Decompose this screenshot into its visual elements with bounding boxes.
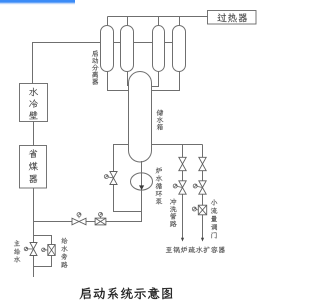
recirculation gate valve xyxy=(95,218,106,225)
steam header pipe to superheater xyxy=(108,16,208,18)
actuator of small flow regulating valve xyxy=(194,209,198,210)
small flow line middle valve xyxy=(199,181,206,194)
separator steam outlet riser 2 xyxy=(127,17,129,28)
pump suction and discharge pipe xyxy=(34,161,142,222)
caption 启动系统示意图 xyxy=(80,287,173,299)
actuator of small flow middle valve xyxy=(195,186,202,188)
main feedwater control valve xyxy=(30,243,37,256)
separator 3 drain pipe xyxy=(151,72,159,87)
tank left outlet pipe xyxy=(114,145,142,212)
separator inlet manifold segment 2-3 xyxy=(134,42,153,44)
actuator of feedwater bypass valve xyxy=(43,249,47,251)
separator 1 drain pipe xyxy=(108,72,130,91)
label 水冷壁 waterwall xyxy=(29,88,38,120)
label 给水旁路 feedwater bypass xyxy=(61,238,68,268)
blue title bar fragment xyxy=(0,0,75,4)
flushing line arrow xyxy=(181,238,184,242)
label 过热器 superheater xyxy=(217,13,247,22)
separator steam outlet riser 1 xyxy=(107,17,109,28)
small flow regulating gate valve xyxy=(198,205,206,215)
tank discharge header pipe xyxy=(152,144,203,146)
separator steam outlet riser 3 xyxy=(158,17,160,28)
startup separator vessel 2 xyxy=(121,26,134,72)
startup separator vessel 4 xyxy=(173,26,186,72)
small flow line arrow xyxy=(201,238,204,242)
separator inlet manifold segment 3-4 xyxy=(165,42,173,44)
storage tank 储水箱 xyxy=(129,72,152,163)
label 启动分离器 startup separator xyxy=(92,50,99,84)
boiler circulating pump 炉水循环泵 xyxy=(131,173,153,190)
actuator of flushing line lower valve xyxy=(175,186,182,188)
actuator of recirculation gate valve xyxy=(100,214,102,218)
label 小流量调门 small flow valve xyxy=(211,199,217,238)
actuator of tank left outlet valve xyxy=(106,177,113,178)
flushing line pipe A xyxy=(182,145,184,239)
valve on tank left outlet xyxy=(110,172,117,185)
label 储水箱 storage tank xyxy=(157,110,164,131)
pump flow direction marker xyxy=(139,185,144,190)
riser pipe from waterwall to separator manifold xyxy=(33,43,101,84)
actuator of recirculation isolation valve xyxy=(78,215,80,219)
feedwater bypass pipe loop xyxy=(34,236,52,267)
startup separator vessel 1 xyxy=(101,26,114,72)
actuator of main feedwater valve xyxy=(26,248,34,250)
label 至锅炉疏水扩容器 to boiler drain flash tank xyxy=(166,246,225,253)
economizer box 省煤器 xyxy=(20,146,47,189)
flushing line lower valve xyxy=(179,181,186,194)
small flow line upper valve xyxy=(199,157,206,170)
separator inlet manifold segment 1-2 xyxy=(114,42,121,44)
feedwater bypass gate valve xyxy=(48,245,55,256)
startup separator vessel 3 xyxy=(153,26,165,72)
waterwall box 水冷壁 xyxy=(20,84,48,122)
feedwater main pipe xyxy=(33,188,35,277)
flushing line upper valve xyxy=(179,157,186,170)
label 炉水循环泵 circulating pump xyxy=(156,167,163,204)
label 冲洗管路 flushing line xyxy=(170,198,177,227)
separator 2 drain pipe xyxy=(128,72,130,86)
small flow line pipe B xyxy=(202,145,204,239)
label 主给水 main feedwater xyxy=(14,240,20,262)
recirculation isolation valve xyxy=(72,218,86,225)
label 省煤器 economizer xyxy=(29,149,38,183)
downcomer pipe waterwall to economizer xyxy=(33,122,35,146)
superheater box 过热器 xyxy=(208,11,257,25)
separator steam outlet riser 4 xyxy=(179,17,181,28)
separator 4 drain pipe xyxy=(151,72,180,91)
